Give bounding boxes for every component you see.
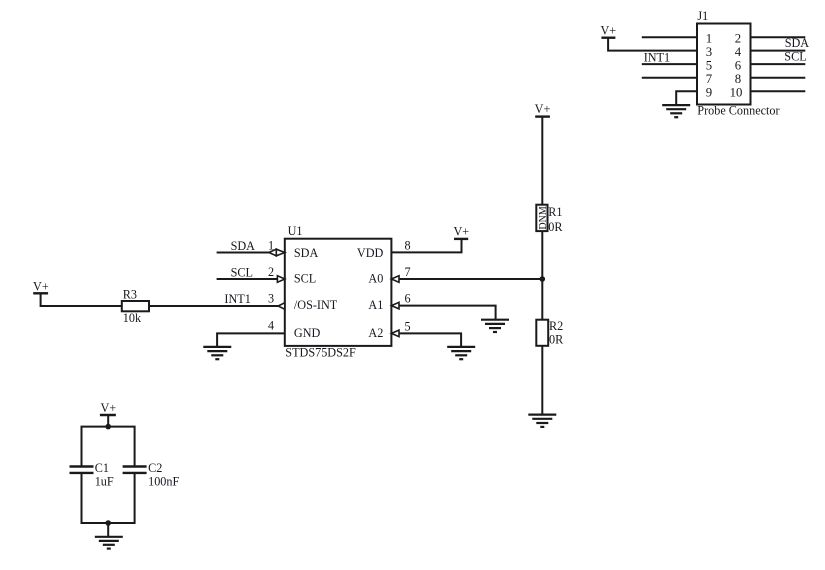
wire J1 pin8 — [751, 77, 806, 79]
svg-text:INT1: INT1 — [224, 292, 250, 306]
wire bottom rail to ground — [107, 523, 109, 537]
svg-text:8: 8 — [404, 239, 410, 253]
svg-text:5: 5 — [404, 319, 410, 333]
wire U1 pin4 GND — [217, 333, 285, 347]
svg-text:R1: R1 — [548, 205, 562, 219]
svg-text:2: 2 — [735, 31, 741, 45]
wire J1 pin1 left stub — [642, 36, 697, 38]
capacitor C1 plates — [70, 467, 94, 473]
node bottom junction — [105, 520, 111, 526]
pin 3 output arrow — [278, 303, 285, 309]
svg-text:SDA: SDA — [294, 246, 319, 260]
svg-text:7: 7 — [404, 265, 410, 279]
wire U1 pin2 SCL stub — [217, 278, 278, 280]
wire V+ stub to top rail — [107, 415, 109, 427]
pin 5 input arrow — [391, 330, 399, 337]
pin 6 input arrow — [391, 302, 399, 309]
svg-text:J1: J1 — [697, 9, 708, 23]
svg-text:/OS-INT: /OS-INT — [294, 298, 338, 312]
wire J1 pin4 SCL — [751, 50, 806, 52]
svg-text:1uF: 1uF — [95, 475, 114, 489]
wire R1 to junction to R2 — [541, 231, 543, 320]
svg-text:SDA: SDA — [785, 36, 810, 50]
svg-text:R3: R3 — [123, 288, 137, 302]
wire U1 pin6 A1 to ground — [399, 306, 496, 320]
connector J1 body — [697, 24, 751, 105]
svg-text:8: 8 — [735, 72, 741, 86]
power V+ (R1 top) — [535, 115, 550, 117]
svg-text:SCL: SCL — [294, 272, 316, 286]
svg-text:STDS75DS2F: STDS75DS2F — [285, 346, 356, 360]
svg-text:10k: 10k — [123, 311, 142, 325]
svg-text:SCL: SCL — [231, 266, 253, 280]
ground (U1 pin6 A1) — [481, 320, 509, 332]
wire U1 pin7 A0 to junction — [399, 278, 542, 280]
wire J1 pin5 INT1 — [642, 63, 697, 65]
wire cap top rail — [82, 427, 135, 467]
pin 1 bidirectional arrow — [269, 249, 285, 256]
wire U1 pin8 VDD to V+ — [391, 239, 461, 253]
svg-text:V+: V+ — [600, 24, 616, 38]
wire J1 pin10 — [751, 90, 806, 92]
wire J1 pin2 SDA — [751, 36, 806, 38]
ground (caps) — [95, 537, 123, 549]
svg-text:V+: V+ — [101, 401, 117, 415]
node junction A0 — [540, 276, 546, 282]
svg-text:3: 3 — [268, 291, 274, 305]
wire U1 pin5 A2 to ground — [399, 333, 461, 347]
wire R3 to U1 pin3 — [149, 305, 278, 307]
wire R2 to ground — [541, 346, 543, 415]
capacitor C2 plates — [123, 467, 147, 473]
wire U1 pin1 SDA stub — [217, 252, 269, 254]
svg-text:INT1: INT1 — [644, 51, 670, 65]
op-amp U1 body — [285, 239, 392, 346]
ground (J1 pin9) — [662, 105, 690, 117]
svg-text:GND: GND — [294, 326, 321, 340]
svg-text:SCL: SCL — [784, 49, 806, 63]
svg-text:7: 7 — [706, 72, 713, 86]
svg-text:1: 1 — [706, 31, 712, 45]
resistor R2 body — [536, 320, 548, 346]
svg-text:C2: C2 — [148, 461, 162, 475]
svg-text:A1: A1 — [368, 298, 383, 312]
pin 7 input arrow — [391, 276, 399, 283]
resistor R3 body — [122, 301, 149, 311]
svg-text:100nF: 100nF — [148, 475, 179, 489]
svg-text:10: 10 — [730, 86, 743, 100]
ground (R2) — [528, 415, 556, 427]
wire J1 pin9 to ground — [676, 91, 697, 105]
wire J1 pin6 — [751, 63, 806, 65]
svg-text:DNM: DNM — [538, 206, 549, 229]
svg-text:1: 1 — [268, 239, 274, 253]
svg-text:V+: V+ — [453, 224, 469, 238]
ground (U1 pin4) — [203, 347, 231, 359]
svg-text:U1: U1 — [288, 224, 303, 238]
svg-text:C1: C1 — [95, 461, 109, 475]
svg-text:6: 6 — [735, 58, 742, 72]
power V+ (R3) — [33, 292, 48, 294]
wire J1 pin3 to V+ — [608, 38, 697, 51]
svg-text:Probe Connector: Probe Connector — [697, 103, 779, 117]
wire V+ to R3 — [41, 293, 122, 306]
ground (U1 pin5 A2) — [447, 347, 475, 359]
svg-text:3: 3 — [706, 45, 712, 59]
node top junction — [105, 424, 111, 430]
svg-text:4: 4 — [268, 318, 274, 332]
svg-text:A0: A0 — [368, 272, 383, 286]
wire V+ to R1 — [541, 117, 543, 205]
svg-text:VDD: VDD — [357, 246, 384, 260]
svg-text:0R: 0R — [549, 333, 564, 347]
svg-text:V+: V+ — [33, 279, 49, 293]
svg-text:4: 4 — [735, 45, 742, 59]
pin 2 input arrow — [277, 276, 284, 283]
svg-text:SDA: SDA — [231, 239, 256, 253]
svg-text:0R: 0R — [548, 220, 563, 234]
resistor R1 body — [536, 205, 547, 231]
wire J1 pin7 left stub — [642, 77, 697, 79]
power V+ (J1) — [601, 37, 615, 39]
svg-text:9: 9 — [706, 86, 712, 100]
power V+ (U1 VDD) — [454, 238, 468, 240]
pin numbers J1 left column — [706, 31, 743, 99]
power V+ (caps) — [100, 414, 116, 416]
svg-text:R2: R2 — [549, 319, 563, 333]
svg-text:V+: V+ — [535, 102, 551, 116]
svg-text:2: 2 — [268, 265, 274, 279]
svg-text:A2: A2 — [368, 326, 383, 340]
svg-text:5: 5 — [706, 58, 712, 72]
svg-text:6: 6 — [404, 292, 410, 306]
wire cap bottom rail — [82, 473, 135, 523]
